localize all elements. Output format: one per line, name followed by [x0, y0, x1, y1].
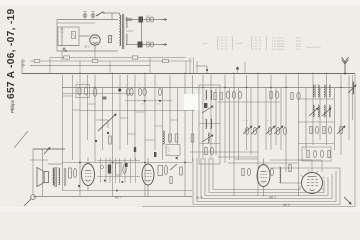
svg-text:2x300: 2x300	[146, 16, 151, 18]
svg-text:24 63: 24 63	[296, 46, 301, 48]
svg-text:24 63: 24 63	[296, 49, 301, 51]
svg-text:II 7,5 2-98 kHz: II 7,5 2-98 kHz	[272, 43, 284, 45]
svg-text:Philips: Philips	[10, 99, 15, 113]
svg-text:I 41 - 79: I 41 - 79	[220, 48, 228, 50]
svg-text:Tfk: Tfk	[168, 151, 171, 153]
svg-text:II 7,5 2-98 kHz: II 7,5 2-98 kHz	[272, 40, 284, 42]
svg-text:I 41 - 79: I 41 - 79	[220, 40, 228, 42]
svg-text:I 41 - 79: I 41 - 79	[254, 43, 262, 45]
svg-text:I 41 - 79: I 41 - 79	[254, 46, 262, 48]
svg-text:Lg: Lg	[168, 154, 170, 156]
svg-text:I 41 - 79: I 41 - 79	[220, 46, 228, 48]
svg-text:25: 25	[83, 82, 85, 84]
svg-text:24 63: 24 63	[296, 43, 301, 45]
svg-text:25: 25	[76, 82, 78, 84]
svg-text:0,1: 0,1	[157, 85, 159, 87]
svg-text:24 63: 24 63	[296, 40, 301, 42]
svg-text:0,1: 0,1	[138, 85, 140, 87]
svg-text:I 41 - 79: I 41 - 79	[254, 40, 262, 42]
svg-text:I 41 - 79: I 41 - 79	[254, 48, 262, 50]
svg-text:II 7,5 2-98 kHz: II 7,5 2-98 kHz	[272, 46, 284, 48]
svg-text:AZ 1: AZ 1	[84, 45, 90, 49]
svg-text:5000: 5000	[141, 104, 145, 106]
svg-text:I 41 - 79: I 41 - 79	[220, 43, 228, 45]
svg-text:I 41 - 79: I 41 - 79	[220, 37, 228, 39]
svg-text:AB 2: AB 2	[269, 196, 276, 200]
svg-text:II 7,5 2-98 kHz: II 7,5 2-98 kHz	[272, 38, 284, 40]
svg-text:4a 4b: 4a 4b	[243, 120, 249, 122]
svg-text:0,1: 0,1	[125, 85, 127, 87]
svg-text:5000: 5000	[156, 104, 160, 106]
svg-text:AF 7: AF 7	[115, 196, 122, 200]
svg-text:657 A -06, -07, -19: 657 A -06, -07, -19	[6, 9, 17, 99]
svg-text:Parallel: Parallel	[236, 43, 243, 45]
svg-text:Philips 657 A -07: Philips 657 A -07	[306, 46, 322, 49]
svg-text:5a 5b: 5a 5b	[267, 120, 273, 122]
svg-text:I 41 - 79: I 41 - 79	[254, 37, 262, 39]
svg-text:24 63: 24 63	[296, 38, 301, 40]
svg-text:II 7,5 2-98 kHz: II 7,5 2-98 kHz	[272, 49, 284, 51]
